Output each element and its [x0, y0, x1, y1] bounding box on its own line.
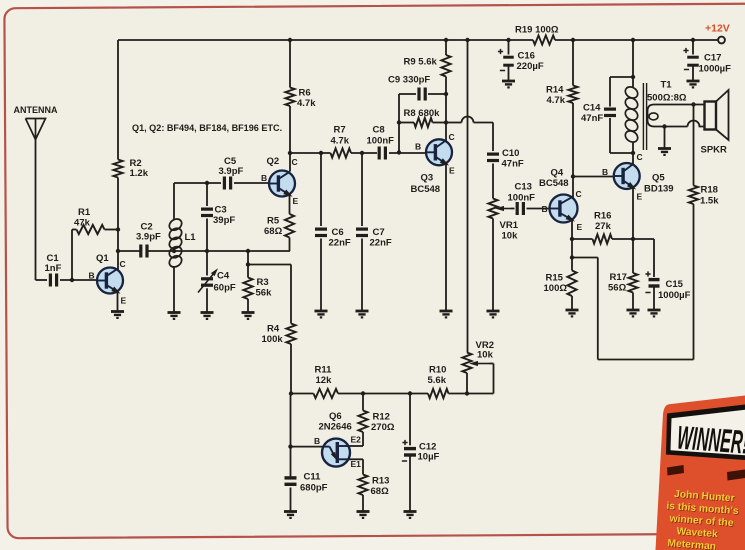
ground Q3: [440, 311, 453, 317]
transistor Q1: [96, 253, 123, 296]
resistor R9: [404, 55, 451, 77]
svg-text:B: B: [89, 271, 95, 281]
pin Q4 C: [576, 189, 582, 199]
svg-text:10k: 10k: [502, 231, 519, 242]
svg-text:100Ω: 100Ω: [544, 283, 568, 294]
svg-text:E2: E2: [351, 435, 362, 445]
svg-text:R11: R11: [315, 365, 333, 376]
wire E1-R13: [350, 459, 363, 474]
wire rail-R6: [289, 40, 291, 88]
node Q2C-R7: [288, 151, 292, 155]
wire rail-VR2: [467, 40, 469, 353]
wire R12-top: [362, 394, 364, 411]
resistor R1: [72, 207, 118, 234]
potentiometer VR1: [488, 199, 518, 242]
svg-text:22nF: 22nF: [370, 238, 392, 249]
svg-text:Q6: Q6: [329, 411, 342, 422]
capacitor C13: [508, 182, 536, 216]
svg-text:B: B: [602, 167, 608, 177]
svg-text:1000µF: 1000µF: [699, 64, 732, 75]
node C14 bottom: [631, 151, 635, 155]
wire Q4emitter: [571, 220, 573, 271]
capacitor C15 (electrolytic): [645, 271, 690, 309]
svg-text:1.5k: 1.5k: [700, 196, 719, 207]
node C14 top: [631, 75, 635, 79]
wire R6-Q2collector: [289, 106, 291, 172]
wire Q5emitter: [632, 187, 634, 239]
node rail-R6: [288, 38, 292, 42]
svg-text:Q1: Q1: [96, 253, 109, 264]
svg-text:C14: C14: [583, 103, 601, 114]
svg-text:R5: R5: [267, 216, 280, 227]
svg-text:C3: C3: [215, 205, 227, 216]
capacitor C11: [285, 472, 328, 512]
svg-text:10k: 10k: [477, 350, 494, 361]
wire E2-R12: [350, 432, 363, 446]
svg-text:C16: C16: [518, 51, 535, 62]
terminal +12V: [705, 23, 730, 44]
svg-text:C6: C6: [332, 227, 344, 238]
svg-text:SPKR: SPKR: [701, 145, 728, 156]
svg-text:BD139: BD139: [644, 184, 674, 195]
node R1-base: [70, 278, 74, 282]
node rail-R14: [571, 38, 575, 42]
capacitor C14: [581, 77, 633, 153]
svg-text:C15: C15: [666, 279, 684, 290]
wire R13-gnd: [362, 495, 364, 511]
node C12 tap: [408, 391, 412, 395]
ground R3: [242, 313, 255, 319]
pin Q3 E: [449, 166, 455, 176]
svg-text:L1: L1: [185, 232, 197, 243]
resistor R14: [546, 85, 578, 107]
ground Q1: [111, 312, 124, 318]
node R3 tap: [246, 249, 250, 253]
wire antenna-C1: [36, 140, 48, 281]
capacitor C16 (electrolytic): [498, 40, 544, 81]
pin Q1 C: [120, 259, 126, 269]
svg-text:R17: R17: [610, 272, 627, 283]
wire Q3emitter-gnd: [445, 163, 447, 311]
svg-text:100nF: 100nF: [508, 193, 536, 204]
node feedback-base: [397, 150, 401, 154]
node C6 tap: [319, 151, 323, 155]
ground C7: [356, 311, 369, 317]
wire tank top: [174, 182, 221, 184]
svg-text:1000µF: 1000µF: [658, 290, 691, 301]
svg-text:C11: C11: [304, 472, 322, 483]
wire R15-gnd: [571, 296, 573, 310]
node VR2-R10: [465, 391, 469, 395]
wire R14-Q4collector: [572, 103, 574, 198]
transistor Q4: [539, 168, 578, 224]
ground R17: [627, 310, 640, 316]
node rail-T1: [631, 38, 635, 42]
pin Q6 E2: [351, 435, 362, 445]
wire rail-T1: [632, 40, 634, 87]
svg-text:4.7k: 4.7k: [547, 95, 566, 106]
svg-text:BC548: BC548: [539, 178, 569, 189]
pin Q3 B: [415, 142, 421, 152]
wire VR1-gnd: [492, 219, 494, 311]
node secondary-R18: [691, 102, 695, 106]
svg-text:5.6k: 5.6k: [428, 375, 447, 386]
wire R1-base: [71, 230, 73, 281]
wire R3-R4: [248, 265, 291, 324]
svg-text:100nF: 100nF: [367, 136, 395, 147]
svg-text:680pF: 680pF: [300, 483, 328, 494]
svg-text:68Ω: 68Ω: [371, 486, 390, 497]
wire Q6 base lead: [291, 446, 324, 448]
ground C17: [687, 81, 700, 87]
winner badge: [656, 396, 745, 550]
svg-text:270Ω: 270Ω: [371, 422, 395, 433]
ground C16: [502, 81, 515, 87]
svg-text:C: C: [120, 259, 126, 269]
svg-text:R9 5.6k: R9 5.6k: [404, 57, 438, 68]
transistor Q5: [614, 163, 674, 195]
svg-text:C17: C17: [704, 53, 721, 64]
svg-text:R19 100Ω: R19 100Ω: [515, 25, 559, 36]
pin Q2 B: [261, 173, 267, 183]
svg-text:39pF: 39pF: [213, 215, 235, 226]
node C3 top: [205, 181, 209, 185]
ground R13: [357, 512, 370, 518]
node rail-C17: [691, 38, 695, 42]
capacitor C10: [487, 148, 524, 170]
svg-text:27k: 27k: [595, 221, 612, 232]
wire rail-R9: [445, 40, 447, 55]
svg-text:C: C: [576, 189, 582, 199]
svg-text:E: E: [637, 192, 643, 202]
pin Q5 E: [637, 192, 643, 202]
svg-text:Q2: Q2: [267, 156, 280, 167]
svg-text:Q3: Q3: [421, 173, 434, 184]
svg-text:12k: 12k: [316, 375, 333, 386]
transistor Q2: [267, 156, 296, 199]
transformer T1 secondary: [648, 105, 706, 127]
wire C10-VR1: [492, 164, 494, 199]
wire VR2-bottom: [466, 373, 468, 394]
svg-text:C9 330pF: C9 330pF: [388, 75, 430, 86]
transistor Q3: [411, 139, 453, 195]
wire VR2 wiper return: [467, 364, 494, 394]
svg-text:60pF: 60pF: [214, 283, 236, 294]
resistor R15: [544, 271, 577, 297]
svg-text:E: E: [577, 222, 583, 232]
svg-text:C: C: [637, 152, 643, 162]
node secondary tap: [662, 124, 666, 128]
svg-text:ANTENNA: ANTENNA: [14, 105, 58, 115]
svg-text:10µF: 10µF: [418, 452, 440, 463]
svg-text:E: E: [449, 166, 455, 176]
pin Q5 C: [637, 152, 643, 162]
note transistor types: [132, 123, 282, 133]
resistor R12: [358, 411, 394, 434]
svg-text:VR1: VR1: [500, 220, 519, 231]
speaker SPKR: [701, 90, 729, 156]
ground C11: [284, 512, 297, 518]
svg-text:E1: E1: [351, 459, 362, 469]
node Q4E-R16: [570, 237, 574, 241]
capacitor C4 (trimmer): [198, 267, 236, 312]
capacitor C12 (electrolytic): [402, 394, 440, 512]
pin Q6 E1: [351, 459, 362, 469]
ground C12: [404, 512, 417, 518]
capacitor C2: [136, 222, 161, 258]
capacitor C6: [315, 153, 351, 311]
svg-text:R14: R14: [546, 85, 564, 96]
svg-text:R15: R15: [546, 273, 564, 284]
node rail-C16: [506, 38, 510, 42]
svg-text:1nF: 1nF: [45, 263, 62, 274]
resistor R6: [285, 88, 316, 110]
resistor R10: [428, 365, 449, 399]
capacitor C8: [367, 125, 395, 160]
svg-text:WINNER!: WINNER!: [676, 419, 745, 461]
svg-text:47nF: 47nF: [502, 159, 524, 170]
ground C15: [648, 310, 661, 316]
node rail-R9: [444, 38, 448, 42]
wire C8-Q3base: [389, 152, 427, 154]
svg-text:22nF: 22nF: [329, 238, 351, 249]
svg-text:47nF: 47nF: [581, 113, 603, 124]
svg-text:R1: R1: [78, 207, 91, 218]
pin Q2 E: [293, 196, 299, 206]
node R2-R1: [116, 227, 120, 231]
svg-text:3.9pF: 3.9pF: [136, 232, 161, 243]
svg-text:E: E: [121, 296, 127, 306]
wire rail-R14: [572, 40, 574, 86]
svg-text:E: E: [293, 196, 299, 206]
resistor R16: [572, 211, 633, 244]
resistor R13: [358, 475, 389, 498]
wire R18 lead: [693, 105, 695, 186]
ground C6: [315, 311, 328, 317]
resistor R17: [608, 239, 638, 310]
svg-text:C4: C4: [217, 271, 230, 282]
wire R7-C8: [351, 152, 377, 154]
node C9-R9: [444, 92, 448, 96]
svg-text:68Ω: 68Ω: [264, 226, 283, 237]
capacitor C9: [388, 75, 446, 101]
svg-text:47k: 47k: [74, 218, 91, 229]
node feedback join: [570, 255, 574, 259]
node C7 tap: [360, 151, 364, 155]
wire R5-bottom: [289, 238, 291, 252]
svg-text:R3: R3: [257, 277, 269, 288]
svg-text:56Ω: 56Ω: [608, 283, 627, 294]
svg-text:C10: C10: [502, 148, 519, 159]
resistor R2: [113, 158, 148, 179]
svg-text:R6: R6: [299, 88, 311, 99]
wire Q2emitter-R5: [289, 194, 291, 214]
wire C2-L1-R5: [118, 250, 290, 252]
svg-text:2N2646: 2N2646: [319, 422, 352, 433]
wire R4-down: [290, 344, 292, 394]
resistor R5: [264, 214, 294, 238]
node R4-R11: [289, 391, 293, 395]
ground L1: [168, 313, 181, 319]
inductor L1: [167, 183, 196, 312]
pin Q3 C: [449, 132, 455, 142]
resistor R19: [515, 25, 559, 45]
wire R18-feedback: [572, 204, 694, 360]
svg-text:R8 680k: R8 680k: [404, 108, 441, 119]
svg-text:B: B: [314, 436, 320, 446]
node rail-VR2feed: [465, 38, 469, 42]
svg-text:R10: R10: [429, 365, 446, 376]
svg-text:C8: C8: [373, 125, 385, 136]
svg-text:R12: R12: [373, 412, 390, 423]
pin Q4 B: [542, 204, 548, 214]
svg-text:R13: R13: [372, 476, 389, 487]
capacitor C17 (electrolytic): [683, 40, 731, 81]
svg-text:3.9pF: 3.9pF: [219, 166, 244, 177]
pin Q4 E: [577, 222, 583, 232]
transistor Q6 (UJT 2N2646): [319, 411, 352, 467]
pin Q6 B: [314, 436, 320, 446]
svg-text:C: C: [292, 157, 298, 167]
antenna: [14, 105, 58, 140]
resistor R3: [243, 251, 272, 312]
svg-text:B: B: [542, 204, 548, 214]
svg-text:C7: C7: [373, 227, 385, 238]
resistor R11: [314, 365, 339, 399]
capacitor C7: [356, 153, 392, 311]
ground R15: [566, 310, 579, 316]
wire C5-Q2base: [234, 182, 270, 184]
node R8-C10: [444, 120, 448, 124]
wire R9-Q3collector: [445, 77, 447, 142]
wire R4-Q6base: [290, 394, 292, 477]
node Q4C-Q5B: [571, 174, 575, 178]
svg-text:R7: R7: [334, 125, 346, 136]
pin Q2 C: [292, 157, 298, 167]
capacitor C1: [45, 253, 62, 287]
node Q6base-C11: [288, 444, 292, 448]
svg-text:500Ω:8Ω: 500Ω:8Ω: [647, 93, 687, 104]
svg-text:100k: 100k: [262, 334, 284, 345]
transformer T1 core: [643, 83, 646, 150]
ground VR1: [487, 311, 500, 317]
svg-text:R16: R16: [594, 211, 611, 222]
svg-text:4.7k: 4.7k: [297, 98, 316, 109]
wire bottom bus: [291, 393, 467, 395]
wire Q2C-R7: [290, 152, 331, 154]
wire Q4C-Q5base: [573, 176, 614, 178]
node R3-R4: [246, 262, 250, 266]
node L1 tap: [172, 249, 176, 253]
wire C9-R8 vertical: [398, 94, 400, 153]
resistor R7: [331, 125, 352, 158]
pin Q5 B: [602, 167, 608, 177]
pin Q1 E: [121, 296, 127, 306]
wire tap-gnd: [664, 127, 666, 149]
svg-text:Q1, Q2: BF494, BF184, BF196 ET: Q1, Q2: BF494, BF184, BF196 ETC.: [132, 123, 282, 133]
wire C13-Q4base: [527, 208, 551, 210]
wire Q1-emitter: [117, 291, 119, 311]
wire R16-C15: [633, 239, 654, 277]
resistor R8: [399, 108, 446, 127]
svg-text:R4: R4: [267, 324, 280, 335]
svg-text:+12V: +12V: [705, 23, 730, 35]
wire R2-Q1collector: [117, 178, 119, 271]
ground C4: [201, 313, 214, 319]
wire Q3C-C10 with hop: [446, 117, 493, 151]
wire C1-Q1base: [60, 279, 98, 281]
svg-text:R18: R18: [701, 185, 718, 196]
node R8 left: [397, 120, 401, 124]
svg-text:4.7k: 4.7k: [331, 136, 350, 147]
node R12 tap: [361, 391, 365, 395]
ground T1 tap: [658, 149, 671, 155]
svg-text:T1: T1: [661, 80, 673, 91]
wire rail-R2: [117, 40, 119, 160]
svg-text:BC548: BC548: [411, 184, 441, 195]
svg-text:C13: C13: [515, 182, 532, 193]
wire +12V rail: [118, 39, 718, 41]
capacitor C3: [201, 183, 235, 276]
svg-text:220µF: 220µF: [517, 61, 544, 72]
pin Q1 B: [89, 271, 95, 281]
resistor R18: [689, 185, 719, 207]
svg-text:56k: 56k: [256, 288, 273, 299]
svg-text:Q4: Q4: [551, 168, 564, 179]
svg-text:B: B: [261, 173, 267, 183]
svg-text:Q5: Q5: [652, 173, 665, 184]
node Q1-C2: [116, 249, 120, 253]
capacitor C5: [219, 156, 244, 190]
node Q5E-R17: [631, 237, 635, 241]
resistor R4: [262, 324, 296, 346]
transformer T1 primary: [623, 80, 687, 165]
node C3-C4 tap: [205, 249, 209, 253]
svg-text:1.2k: 1.2k: [130, 168, 149, 179]
wire VR1-C13: [511, 208, 515, 210]
svg-text:B: B: [415, 142, 421, 152]
svg-text:C: C: [449, 132, 455, 142]
potentiometer VR2: [462, 340, 494, 373]
